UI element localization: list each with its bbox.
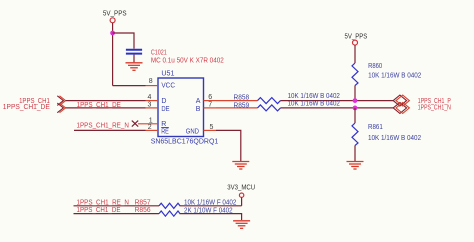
svg-text:6: 6	[208, 94, 212, 101]
wire R860 to line A	[354, 86, 356, 101]
resistor R860	[352, 63, 358, 86]
wire line B continues to port	[281, 107, 395, 109]
wire 5V_PPS to R860	[354, 45, 356, 63]
wire R861 to ground	[354, 146, 356, 162]
svg-text:2: 2	[148, 124, 152, 131]
output port double diamond 1PPS_CH1_P / 1PPS_CH1_N	[393, 95, 409, 113]
svg-text:8: 8	[149, 78, 153, 85]
wire 1PPS_CH1 to pin 4	[66, 100, 146, 102]
pin 5 GND stub	[204, 129, 217, 131]
wire 1PPS_CH1_DE to R856	[74, 213, 160, 215]
resistor R856	[159, 211, 180, 216]
svg-text:1PPS_CH1_DE: 1PPS_CH1_DE	[77, 207, 121, 214]
wire 1PPS_CH1_RE_N to R857	[74, 205, 160, 207]
wire C1021 to ground	[133, 55, 135, 63]
svg-text:1PPS_CH1_DE: 1PPS_CH1_DE	[77, 102, 121, 109]
ground below R861	[347, 162, 364, 170]
svg-text:DE: DE	[161, 106, 169, 113]
svg-text:5V_PPS: 5V_PPS	[103, 11, 127, 18]
pin 2 RE stub	[146, 129, 159, 131]
svg-text:1PPS_CH1_DE: 1PPS_CH1_DE	[3, 104, 50, 111]
wire R856 to ground	[180, 214, 242, 220]
no-connect X on pin 1	[132, 121, 138, 127]
power symbol 3V3_MCU	[227, 184, 255, 197]
svg-text:C1021: C1021	[151, 50, 167, 57]
pin 6 A stub	[204, 100, 217, 102]
pin 7 B stub	[204, 107, 217, 109]
wire 5V_PPS vertical rail	[112, 23, 114, 86]
svg-text:10K 1/16W B 0402: 10K 1/16W B 0402	[368, 73, 421, 80]
svg-text:1PPS_CH1_RE_N: 1PPS_CH1_RE_N	[77, 123, 129, 130]
pin 4 D stub	[146, 100, 159, 102]
resistor R861	[352, 123, 358, 146]
ground below C1021	[126, 63, 143, 71]
pin 3 DE stub	[146, 107, 159, 109]
wire line B to R861	[354, 108, 356, 123]
svg-text:R857: R857	[135, 199, 151, 206]
transceiver U51 body	[158, 78, 204, 137]
wire branch to C1021	[113, 33, 134, 49]
svg-text:R858: R858	[234, 94, 250, 101]
svg-text:D: D	[161, 98, 166, 105]
svg-text:3: 3	[148, 101, 152, 108]
wire 1PPS_CH1_RE_N to pin 2	[74, 129, 146, 131]
svg-text:RE: RE	[161, 128, 169, 135]
svg-text:R856: R856	[135, 207, 151, 214]
resistor R859	[258, 105, 281, 111]
pin 1 R stub	[138, 123, 158, 125]
ground below R856 rail	[233, 221, 250, 229]
input port chevron 1PPS_CH1 / 1PPS_CH1_DE	[57, 96, 65, 113]
svg-text:R860: R860	[368, 63, 382, 70]
resistor R858	[258, 98, 281, 104]
wire 1PPS_CH1_DE to pin 3	[66, 107, 146, 109]
svg-text:10K 1/16W B 0402: 10K 1/16W B 0402	[288, 101, 340, 108]
svg-text:U51: U51	[161, 71, 174, 78]
junction at 5V rail and C1021 branch	[110, 31, 115, 36]
svg-text:4: 4	[148, 94, 152, 101]
power symbol 5V_PPS right	[345, 33, 368, 45]
svg-text:10K 1/16W B 0402: 10K 1/16W B 0402	[288, 93, 340, 100]
wire pin 5 to ground	[216, 130, 241, 161]
wire 3V3_MCU to R857 row	[241, 198, 243, 206]
svg-text:A: A	[196, 98, 201, 105]
capacitor C1021	[126, 50, 142, 54]
junction R860 line A	[353, 98, 358, 103]
svg-text:1PPS_CH1_RE_N: 1PPS_CH1_RE_N	[77, 199, 129, 206]
svg-text:VCC: VCC	[161, 82, 175, 89]
svg-text:3V3_MCU: 3V3_MCU	[227, 184, 255, 191]
svg-text:5: 5	[210, 124, 214, 131]
svg-text:GND: GND	[186, 128, 199, 135]
svg-text:10K 1/16W B 0402: 10K 1/16W B 0402	[368, 135, 421, 142]
wire line A continues to port	[281, 100, 395, 102]
ground below pin 5	[232, 162, 249, 170]
svg-text:B: B	[196, 106, 201, 113]
wire 5V rail to pin 8	[113, 85, 146, 87]
wire R857 to 3V3 rail	[180, 205, 242, 207]
svg-text:7: 7	[208, 101, 212, 108]
resistor R857	[159, 203, 180, 208]
pin 8 VCC stub	[146, 85, 159, 87]
junction R861 line B	[353, 106, 358, 111]
wire pin 6 to R858	[216, 100, 258, 102]
power symbol 5V_PPS left	[103, 11, 127, 23]
svg-text:SN65LBC176QDRQ1: SN65LBC176QDRQ1	[151, 138, 219, 145]
wire pin 7 to R859	[216, 107, 258, 109]
svg-text:MC 0.1u 50V K X7R 0402: MC 0.1u 50V K X7R 0402	[151, 58, 224, 65]
svg-text:R859: R859	[234, 102, 250, 109]
svg-text:5V_PPS: 5V_PPS	[345, 33, 368, 40]
svg-text:1PPS_CH1_N: 1PPS_CH1_N	[418, 104, 451, 111]
svg-text:R861: R861	[368, 124, 383, 131]
